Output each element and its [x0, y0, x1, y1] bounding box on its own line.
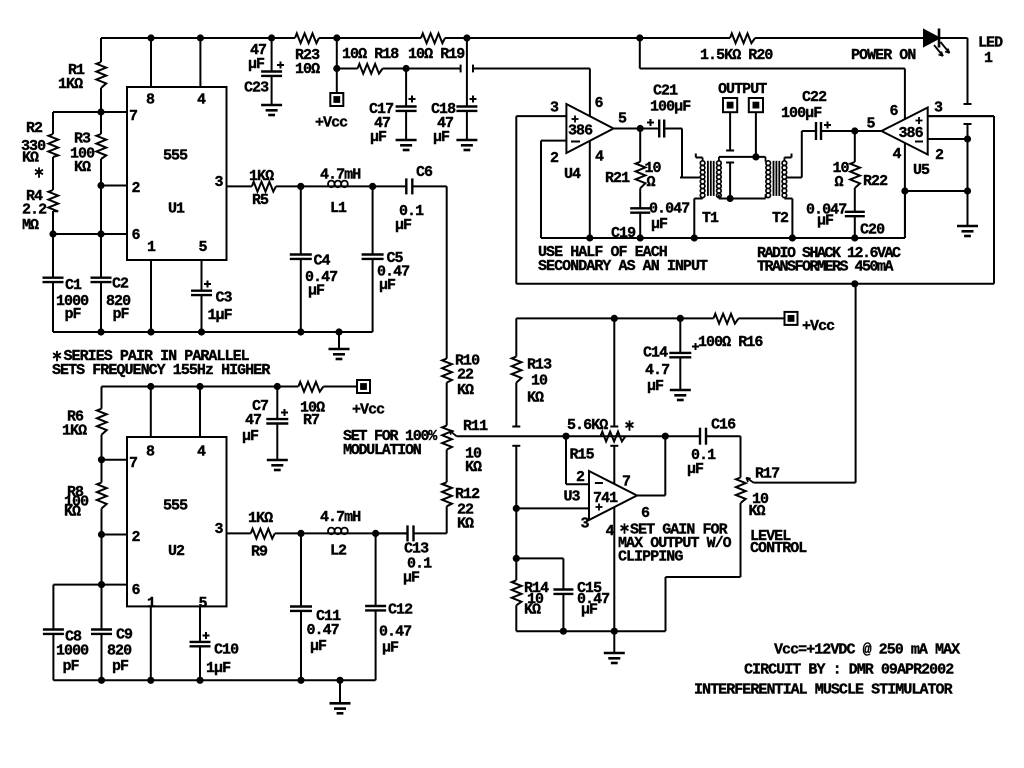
wire U4 pin4 — [589, 141, 591, 238]
svg-text:0.47: 0.47 — [379, 624, 411, 641]
svg-text:μF: μF — [581, 602, 598, 619]
svg-text:1KΩ: 1KΩ — [249, 168, 274, 185]
svg-text:R21: R21 — [605, 170, 630, 187]
svg-text:μF: μF — [395, 217, 412, 234]
svg-text:μF: μF — [310, 638, 327, 655]
svg-text:C16: C16 — [711, 417, 736, 434]
svg-text:0.047: 0.047 — [649, 201, 689, 218]
wire U2 pin1 — [150, 606, 152, 680]
resistor R15 — [601, 432, 626, 442]
svg-text:C23: C23 — [244, 80, 269, 97]
wire U4 pin3 — [516, 115, 566, 117]
svg-text:U4: U4 — [564, 166, 581, 183]
svg-text:R2: R2 — [26, 120, 43, 137]
svg-text:C22: C22 — [802, 89, 827, 106]
ground at U1 rail — [338, 332, 340, 349]
svg-text:+Vcc: +Vcc — [802, 318, 835, 335]
svg-text:C20: C20 — [860, 222, 885, 239]
wire U2 pin7 — [102, 459, 128, 461]
svg-text:CLIPPING: CLIPPING — [618, 549, 683, 566]
svg-text:C2: C2 — [112, 276, 129, 293]
op-amp U5 386 — [882, 108, 928, 155]
capacitor C14 — [679, 318, 681, 352]
wire U2 pin3 output — [227, 532, 251, 534]
svg-text:KΩ: KΩ — [465, 459, 482, 476]
svg-text:POWER ON: POWER ON — [851, 47, 916, 64]
svg-text:KΩ: KΩ — [74, 159, 91, 176]
wire U2 pin6 — [53, 584, 127, 586]
svg-text:1KΩ: 1KΩ — [62, 423, 87, 440]
capacitor C22 — [801, 131, 803, 178]
wire pin3 node — [276, 185, 405, 187]
capacitor C8 — [52, 585, 54, 629]
svg-text:KΩ: KΩ — [22, 150, 39, 167]
svg-text:5: 5 — [199, 239, 208, 256]
svg-text:μF: μF — [242, 428, 259, 445]
IC U2 555 — [127, 437, 227, 606]
svg-text:386: 386 — [899, 125, 924, 142]
svg-text:KΩ: KΩ — [64, 504, 81, 521]
resistor R5 — [252, 182, 276, 192]
svg-text:3: 3 — [215, 174, 224, 191]
svg-text:2: 2 — [132, 529, 141, 546]
capacitor C5 — [372, 186, 374, 254]
wire Vcc distribution line — [516, 317, 713, 319]
transformer T2 — [766, 161, 771, 166]
wire R18 line — [337, 68, 358, 70]
svg-text:Ω: Ω — [647, 174, 656, 191]
LED 1 — [924, 30, 939, 46]
svg-text:pF: pF — [65, 306, 82, 323]
svg-text:3: 3 — [550, 100, 559, 117]
inductor L1 — [328, 181, 335, 188]
svg-text:KΩ: KΩ — [749, 503, 766, 520]
wire U3 pin3 — [516, 507, 589, 509]
op-amp U4 386 — [566, 104, 613, 153]
svg-text:C14: C14 — [643, 345, 668, 362]
svg-text:3: 3 — [215, 521, 224, 538]
svg-text:6: 6 — [890, 103, 899, 120]
svg-text:6: 6 — [132, 582, 141, 599]
svg-text:10Ω R19: 10Ω R19 — [408, 46, 465, 63]
wire top Vcc rail — [101, 37, 295, 39]
svg-text:2: 2 — [935, 147, 944, 164]
wire U5 pin5 — [855, 130, 882, 132]
svg-text:6: 6 — [641, 505, 650, 522]
op-amp U3 741 — [589, 471, 637, 520]
svg-text:8: 8 — [146, 444, 155, 461]
asterisk series pair — [38, 167, 40, 176]
svg-text:OUTPUT: OUTPUT — [718, 81, 767, 98]
svg-text:TRANSFORMERS 450mA: TRANSFORMERS 450mA — [757, 259, 894, 276]
terminal OUTPUT left — [723, 98, 737, 112]
svg-text:100μF: 100μF — [781, 105, 822, 122]
svg-text:C4: C4 — [314, 253, 331, 270]
svg-text:1: 1 — [147, 239, 156, 256]
wire LED cathode down — [940, 37, 968, 39]
resistor R10 — [442, 359, 452, 383]
capacitor C9 — [91, 628, 112, 630]
svg-text:R13: R13 — [527, 357, 552, 374]
resistor R6 — [101, 387, 103, 409]
svg-text:T1: T1 — [702, 210, 719, 227]
svg-text:0.47: 0.47 — [307, 622, 339, 639]
svg-text:4: 4 — [197, 444, 206, 461]
wire U3 pin6 feedback — [637, 495, 665, 497]
wire U3 bottom line — [516, 630, 665, 632]
svg-text:+Vcc: +Vcc — [352, 402, 385, 419]
resistor R22 — [854, 131, 856, 162]
terminal +Vcc mid — [357, 380, 370, 393]
wire rail2 top — [102, 386, 299, 388]
svg-text:100μF: 100μF — [650, 99, 691, 116]
svg-text:4: 4 — [893, 146, 902, 163]
wire +Vcc drop — [336, 38, 338, 93]
svg-text:Ω: Ω — [835, 174, 844, 191]
capacitor C3 — [201, 260, 203, 290]
wire bottom rail U1 section — [53, 331, 373, 333]
wire U3 pin7 Vcc — [613, 318, 615, 426]
svg-text:R12: R12 — [455, 486, 480, 503]
svg-text:SECONDARY AS AN INPUT: SECONDARY AS AN INPUT — [538, 258, 708, 275]
IC U1 555 — [127, 87, 227, 260]
svg-text:U3: U3 — [564, 489, 581, 506]
wire U3 pin4 ground — [613, 508, 615, 654]
svg-text:6: 6 — [132, 227, 141, 244]
svg-text:4: 4 — [606, 523, 615, 540]
svg-text:1KΩ: 1KΩ — [58, 76, 83, 93]
svg-text:7: 7 — [129, 455, 137, 472]
resistor R14 — [515, 508, 517, 580]
resistor R8 — [101, 460, 103, 483]
ground U2 rail — [339, 680, 341, 703]
wire U4 pin6 Vcc — [589, 69, 591, 117]
svg-text:10Ω R18: 10Ω R18 — [342, 46, 399, 63]
svg-text:μF: μF — [308, 283, 325, 300]
svg-text:1KΩ: 1KΩ — [248, 510, 273, 527]
capacitor C7 — [276, 387, 278, 419]
svg-text:2.2: 2.2 — [22, 202, 47, 219]
resistor R19 — [421, 33, 445, 43]
resistor R21 — [639, 129, 641, 162]
capacitor C13 — [415, 532, 447, 534]
svg-text:μF: μF — [370, 129, 387, 146]
capacitor C10 — [199, 606, 201, 641]
svg-text:2: 2 — [550, 150, 559, 167]
svg-text:10: 10 — [531, 373, 548, 390]
svg-text:μF: μF — [433, 129, 450, 146]
svg-text:2: 2 — [132, 180, 141, 197]
svg-text:KΩ: KΩ — [527, 390, 544, 407]
svg-text:C1: C1 — [65, 277, 82, 294]
svg-text:pF: pF — [113, 306, 130, 323]
resistor R1 — [100, 38, 102, 62]
terminal +Vcc right — [785, 312, 798, 325]
svg-text:7: 7 — [129, 108, 137, 125]
wire R10 chain from C6 — [446, 186, 448, 358]
resistor R4 — [52, 157, 54, 190]
capacitor C4 — [300, 186, 302, 254]
svg-text:μF: μF — [817, 213, 834, 230]
svg-text:5: 5 — [618, 111, 627, 128]
svg-text:1: 1 — [984, 50, 993, 67]
note series pair — [56, 351, 58, 360]
wire R17 wiper — [754, 482, 856, 484]
terminal +Vcc top — [330, 93, 343, 106]
capacitor C23 — [271, 38, 273, 71]
svg-text:R11: R11 — [463, 418, 488, 435]
svg-text:100Ω R16: 100Ω R16 — [698, 334, 763, 351]
svg-text:C19: C19 — [611, 225, 636, 242]
svg-text:C21: C21 — [653, 83, 678, 100]
svg-text:555: 555 — [163, 498, 188, 515]
wire U5 pin6 Vcc — [639, 38, 641, 69]
svg-text:μF: μF — [687, 461, 704, 478]
svg-text:U5: U5 — [913, 162, 930, 179]
wire R11 wiper line — [457, 435, 700, 437]
svg-text:U2: U2 — [168, 543, 185, 560]
svg-text:5.6KΩ: 5.6KΩ — [567, 417, 608, 434]
svg-text:L1: L1 — [330, 200, 347, 217]
svg-text:KΩ: KΩ — [457, 382, 474, 399]
svg-text:C9: C9 — [116, 627, 133, 644]
svg-text:KΩ: KΩ — [524, 602, 541, 619]
svg-text:4: 4 — [197, 92, 206, 109]
wire U1 pin7 — [53, 111, 127, 113]
svg-text:1μF: 1μF — [206, 660, 231, 677]
svg-text:47: 47 — [245, 412, 261, 429]
resistor R3 — [100, 112, 102, 134]
resistor R9 — [251, 529, 275, 539]
svg-text:1μF: 1μF — [208, 307, 233, 324]
wire U5 pin4 ground — [904, 143, 906, 238]
svg-text:CIRCUIT BY : DMR 09APR2002: CIRCUIT BY : DMR 09APR2002 — [744, 662, 954, 679]
wire output coupling box — [719, 156, 766, 158]
svg-text:MODULATION: MODULATION — [343, 442, 422, 459]
resistor R23 — [295, 33, 319, 43]
svg-text:KΩ: KΩ — [457, 516, 474, 533]
svg-text:5: 5 — [867, 116, 876, 133]
terminal OUTPUT right — [749, 98, 763, 112]
svg-text:μF: μF — [647, 378, 664, 395]
note set gain — [624, 523, 626, 532]
svg-text:μF: μF — [651, 216, 668, 233]
wire pin3 node 2 — [275, 532, 407, 534]
wire U1 pin8 to rail — [150, 38, 152, 87]
capacitor C15 — [516, 557, 563, 559]
wire U1 pin3 output — [227, 185, 252, 187]
capacitor C12 — [375, 533, 377, 605]
svg-text:C6: C6 — [416, 164, 433, 181]
svg-text:pF: pF — [112, 658, 129, 675]
svg-text:R5: R5 — [252, 192, 269, 209]
svg-text:741: 741 — [593, 490, 618, 507]
svg-text:Vcc=+12VDC @ 250 mA MAX: Vcc=+12VDC @ 250 mA MAX — [774, 642, 960, 659]
wire U4 pin2 — [541, 140, 566, 142]
potentiometer R17 — [736, 478, 746, 504]
svg-text:22: 22 — [457, 367, 474, 384]
resistor R13 — [515, 318, 517, 356]
capacitor C21 — [658, 120, 660, 138]
potentiometer R11 — [442, 426, 452, 450]
capacitor C18 — [466, 38, 468, 106]
svg-text:3: 3 — [581, 516, 590, 533]
resistor R7 — [298, 382, 323, 392]
capacitor C19 — [630, 207, 650, 209]
svg-text:U1: U1 — [168, 201, 185, 218]
svg-text:C3: C3 — [216, 290, 233, 307]
svg-text:R15: R15 — [570, 447, 595, 464]
svg-text:6: 6 — [595, 95, 604, 112]
wire U4 pin5 output — [614, 128, 659, 130]
wire U1 pin6 — [53, 233, 127, 235]
svg-text:10Ω: 10Ω — [295, 61, 320, 78]
wire feedback net — [515, 116, 517, 284]
resistor R20 — [730, 33, 755, 43]
svg-text:LED: LED — [978, 35, 1003, 52]
svg-text:1.5KΩ R20: 1.5KΩ R20 — [700, 47, 773, 64]
wire U1 pin1 down — [150, 260, 152, 332]
svg-text:CONTROL: CONTROL — [750, 540, 807, 557]
resistor R16 — [714, 314, 739, 324]
svg-text:C10: C10 — [214, 642, 239, 659]
svg-text:MΩ: MΩ — [22, 217, 39, 234]
svg-text:386: 386 — [568, 123, 593, 140]
svg-text:pF: pF — [63, 658, 80, 675]
svg-text:3: 3 — [934, 100, 943, 117]
wire bottom rail U2 — [53, 679, 375, 681]
svg-text:4.7: 4.7 — [645, 362, 669, 379]
svg-text:R17: R17 — [755, 466, 779, 483]
wire U1 pin2 — [101, 185, 127, 187]
svg-text:INTERFERENTIAL MUSCLE STIMULAT: INTERFERENTIAL MUSCLE STIMULATOR — [694, 682, 953, 699]
svg-text:R22: R22 — [863, 173, 888, 190]
svg-text:L2: L2 — [330, 543, 347, 560]
capacitor C6 — [405, 178, 407, 194]
svg-text:T2: T2 — [772, 210, 789, 227]
wire U2 pin8 — [150, 387, 152, 438]
svg-text:4: 4 — [595, 149, 604, 166]
svg-text:SETS FREQUENCY 155Hz HIGHER: SETS FREQUENCY 155Hz HIGHER — [52, 362, 270, 379]
svg-text:1000: 1000 — [56, 643, 89, 660]
wire U2 pin2 — [102, 534, 128, 536]
capacitor C20 — [845, 211, 865, 213]
svg-text:μF: μF — [382, 640, 399, 657]
svg-text:R7: R7 — [303, 412, 319, 429]
capacitor C11 — [300, 533, 302, 606]
capacitor C16 — [699, 428, 701, 445]
svg-text:μF: μF — [379, 277, 396, 294]
svg-text:820: 820 — [107, 643, 132, 660]
svg-text:8: 8 — [146, 92, 155, 109]
wire U5 pin3 — [928, 115, 994, 117]
svg-text:4.7mH: 4.7mH — [320, 167, 360, 184]
wire U5 pin2 — [928, 138, 968, 140]
wire U2 pin4 — [199, 387, 201, 438]
svg-text:7: 7 — [622, 474, 630, 491]
resistor R2 — [52, 112, 54, 134]
capacitor C2 — [91, 277, 112, 279]
svg-text:+Vcc: +Vcc — [315, 115, 348, 132]
svg-text:C12: C12 — [388, 602, 413, 619]
wire U1 pin4 to rail — [199, 38, 201, 87]
resistor R18 — [358, 64, 383, 74]
wire rail 238 — [541, 237, 905, 239]
svg-text:4.7mH: 4.7mH — [320, 509, 360, 526]
capacitor C1 — [52, 234, 54, 277]
svg-text:555: 555 — [163, 148, 188, 165]
svg-text:R9: R9 — [251, 544, 268, 561]
svg-text:μF: μF — [403, 570, 420, 587]
svg-text:μF: μF — [248, 56, 265, 73]
wire U3 pin2 — [565, 436, 567, 484]
transformer T1 — [700, 161, 705, 166]
inductor L2 — [328, 528, 335, 535]
capacitor C17 — [405, 69, 407, 107]
resistor R12 — [442, 482, 452, 506]
